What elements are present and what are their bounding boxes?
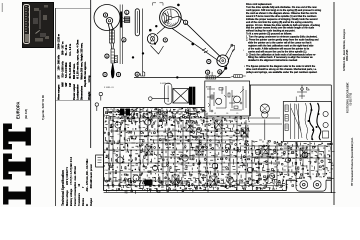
carrier link [111,43,114,49]
v-corner under pulley [151,46,164,55]
tension pulley [217,55,229,67]
svg-text:10u: 10u [203,111,206,113]
rail clip [124,17,130,23]
tiny part numbers [104,50,246,89]
I [4,187,31,204]
rule left of Technical Specification column [55,8,57,206]
svg-text:T3: T3 [311,166,313,168]
svg-text:C34: C34 [105,170,108,172]
svg-text:47k: 47k [110,109,113,111]
IF can (rounded) [164,83,172,104]
speaker [260,104,269,113]
right column rule [333,2,335,205]
svg-text:10u: 10u [282,158,285,160]
svg-text:R12: R12 [222,170,225,172]
pointer carrier arms [108,24,113,31]
small screws bottom-left of diagram [97,96,101,112]
svg-text:47k: 47k [169,120,172,122]
carrier block lower [111,49,114,63]
svg-text:5k6: 5k6 [219,183,222,185]
FM tuner sub-box [205,81,250,116]
photo interior flecks [39,10,41,29]
pointer (black teardrop) [111,64,114,79]
second spring piece right [234,75,242,78]
drive cord stringing instructions text block [246,3,329,74]
pointer rail (double line) [120,5,122,65]
svg-text:T3: T3 [117,118,119,120]
svg-text:2n2: 2n2 [201,121,204,123]
hook at its bottom [140,72,144,77]
cord from pulley to horizontal run [216,64,228,78]
svg-text:C34: C34 [179,164,182,166]
ferrite bars (thick black) [189,87,191,105]
svg-text:47k: 47k [150,108,153,110]
drive drum [160,7,182,29]
svg-text:0.1: 0.1 [177,138,180,140]
svg-text:68p: 68p [292,180,295,182]
Type No (rotated) [42,95,45,120]
cord break marks [202,48,208,53]
long horizontal cord run [134,76,230,78]
dial strip tick markings (light on dark) [25,7,29,32]
svg-text:47k: 47k [148,178,151,180]
svg-text:C34: C34 [106,109,109,111]
T [4,124,31,149]
harness box with wavy wires [283,102,331,142]
svg-text:1k: 1k [311,152,313,154]
svg-text:1k: 1k [155,121,157,123]
svg-text:5k6: 5k6 [323,157,326,159]
(AF 418) (rotated) [25,104,28,119]
right column rotated addresses [343,26,349,71]
dense circuitry texture [104,108,334,194]
svg-text:47k: 47k [132,107,135,109]
small diode circuit on that wire [297,85,307,99]
spring attach v [226,46,234,63]
spec table top-left (rotated) [57,8,91,100]
svg-text:R12: R12 [284,166,287,168]
scan edge mark top-left [1,3,4,12]
svg-text:R12: R12 [238,180,241,182]
svg-text:68p: 68p [233,181,236,183]
spec table frame [56,9,91,101]
capsule bar [135,9,139,36]
svg-text:5k6: 5k6 [109,120,112,122]
T [4,154,31,179]
svg-text:5k6: 5k6 [128,169,131,171]
cords from drum [179,16,221,57]
black junction dots [132,4,227,79]
svg-text:2n2: 2n2 [273,182,276,184]
Technical Specification (rotated, bottom-left) [61,138,93,206]
thick wavy leads right [309,103,313,140]
svg-text:T3: T3 [226,175,228,177]
svg-text:68p: 68p [124,183,127,185]
IF transformer box with diagonals [173,89,189,104]
svg-text:R12: R12 [184,158,187,160]
connector strip left [285,105,288,112]
svg-text:T3: T3 [143,170,145,172]
corner ticks top [153,3,164,6]
dark transformer top-left of schematic [120,109,124,116]
node with wire [149,97,153,101]
dark component blob [145,180,153,186]
photo dial scale strip [23,4,30,44]
battery tray [296,180,326,191]
wire right of capsule [142,9,144,77]
svg-text:68p: 68p [223,155,226,157]
svg-text:68p: 68p [319,177,322,179]
spring (hatched) on run [206,76,216,79]
svg-text:1k: 1k [275,186,277,188]
photo of radio (top left) [22,2,55,48]
svg-text:R12: R12 [188,166,191,168]
svg-text:C34: C34 [273,164,276,166]
svg-text:5k6: 5k6 [322,173,325,175]
svg-text:T3: T3 [312,174,314,176]
carrier block upper [109,30,111,43]
svg-text:R12: R12 [319,170,322,172]
circled reference numbers [103,13,107,17]
svg-text:2n2: 2n2 [210,116,213,118]
svg-text:5k6: 5k6 [135,165,138,167]
wire from sub-box to right edge [249,84,331,86]
svg-text:47k: 47k [126,152,129,154]
flywheel circle [94,5,120,31]
EUROPA title (rotated) [16,97,21,119]
svg-text:0.1: 0.1 [113,173,116,175]
left connector tab [96,155,104,167]
battery circles [278,181,321,189]
flywheel hub [106,18,112,24]
rule right of spec table [90,0,92,148]
small pulley lower-left of drum [147,34,157,44]
svg-text:10u: 10u [179,172,182,174]
svg-text:68p: 68p [188,186,191,188]
